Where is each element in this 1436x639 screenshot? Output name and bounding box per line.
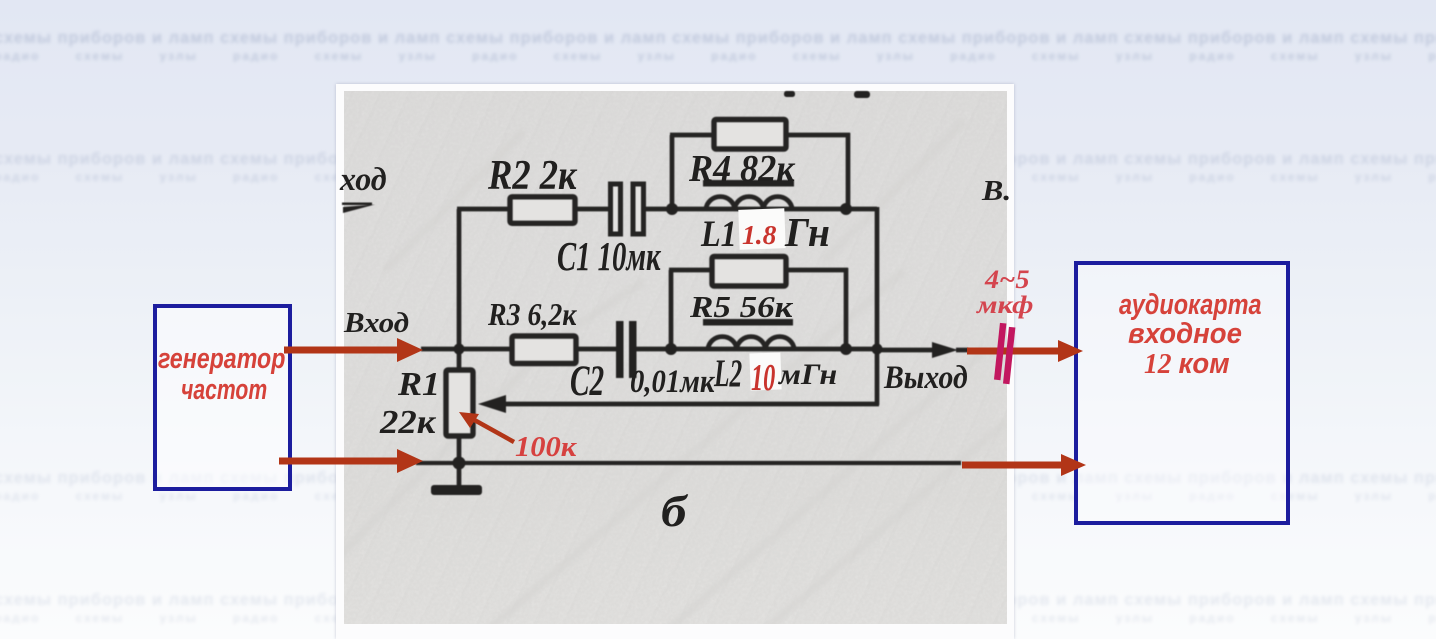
schematic paper	[344, 91, 1007, 624]
resistor R4	[714, 120, 786, 150]
label 1.8 annotation	[742, 222, 776, 249]
value underline R5	[703, 319, 793, 326]
annotation capacitor 4-5мкф plate 1	[994, 323, 1006, 380]
annotation arrow generator to bottom rail shaft	[279, 458, 399, 465]
background watermark band 4	[0, 593, 1436, 624]
label R5 56к	[690, 291, 792, 322]
wire C1 to node A	[641, 207, 674, 212]
potentiometer R1 body	[446, 370, 473, 436]
resistor R5	[712, 257, 786, 287]
wire Вход node to R3	[459, 347, 515, 352]
label генератор (line 1 of generator box)	[158, 345, 285, 374]
wire lower loop left	[669, 270, 674, 351]
scan input arrow under ход	[343, 205, 375, 214]
ground node junction dot	[453, 457, 466, 470]
label ход (cut at scan edge)	[340, 164, 387, 197]
node Вход junction dot	[454, 344, 465, 355]
arrowhead output to audio card	[1058, 340, 1083, 362]
annotation 100к pointer shaft	[469, 417, 514, 442]
label C2	[570, 360, 604, 403]
wire input stub left of Вход node	[421, 347, 461, 352]
label 4~5	[985, 267, 1030, 293]
label 0,01мк	[630, 366, 714, 399]
annotation arrow generator to Вход node shaft	[284, 347, 399, 354]
ground bar	[431, 485, 482, 495]
patch under 10 annotation	[749, 352, 781, 390]
wire lower loop top	[669, 268, 848, 273]
capacitor C2 plate 1	[616, 321, 624, 378]
wire feedback horizontal	[504, 402, 879, 407]
annotation capacitor 4-5мкф plate 2	[1003, 327, 1015, 384]
node E junction dot	[872, 344, 883, 355]
label 100к	[515, 434, 576, 462]
capacitor C1 plate 2	[633, 184, 644, 234]
feedback wiper arrowhead	[478, 395, 506, 413]
wire lower loop right	[844, 268, 849, 351]
inductor L1 humps	[706, 197, 792, 209]
capacitor C1 plate 1	[611, 184, 621, 234]
wire R2 to C1	[573, 207, 611, 212]
wire through L2 (node C to node D)	[671, 347, 848, 352]
label аудиокарта (line 1 of audio box)	[1119, 291, 1262, 320]
block audio card box	[1074, 261, 1290, 525]
label Вход	[344, 310, 409, 338]
resistor R2	[510, 197, 575, 224]
resistor R3	[512, 336, 576, 364]
wire R1 to ground node	[457, 436, 462, 465]
arrowhead bottom rail to audio card	[1061, 454, 1086, 476]
wire input vertical (Вход node up to R2 branch)	[457, 209, 462, 349]
capacitor C2 plate 2	[629, 321, 637, 378]
label В (cut at scan edge)	[982, 177, 1011, 206]
label R2 2к	[488, 155, 577, 197]
arrowhead 100к pointer	[459, 412, 479, 428]
scan edge cut mark 1	[784, 91, 795, 97]
background watermark band 1	[0, 31, 1436, 62]
label 22к	[380, 406, 435, 440]
wire feedback vertical	[875, 349, 880, 405]
value underline R4	[703, 180, 794, 187]
label Гн	[785, 212, 830, 253]
background watermark band 2	[0, 152, 1436, 183]
wire C2 to node C	[635, 347, 673, 352]
wire ground node down	[457, 463, 462, 485]
arrowhead generator to bottom rail	[397, 449, 423, 473]
block generator box	[153, 304, 292, 491]
wire bottom rail	[416, 461, 961, 465]
patch under 1.8 annotation	[738, 208, 785, 250]
wire node D to node E	[846, 347, 877, 352]
wire node B to right riser	[844, 207, 877, 212]
label R3 6,2к	[488, 298, 576, 330]
background watermark band 3	[0, 471, 1436, 502]
node B junction dot	[840, 203, 852, 215]
label R4 82к	[689, 150, 795, 188]
label R1	[398, 368, 440, 402]
label L1	[701, 216, 737, 253]
node D junction dot	[840, 343, 852, 355]
label частот (line 2 of generator box)	[181, 376, 267, 405]
node C junction dot	[665, 343, 677, 355]
wire output node E to arrow	[877, 348, 934, 353]
wire through L1 (node A to node B)	[672, 207, 846, 212]
wire right riser vertical	[875, 207, 880, 351]
node A junction dot	[666, 203, 678, 215]
label входное (line 2 of audio box)	[1128, 320, 1242, 349]
label L2	[714, 354, 742, 393]
scan edge cut mark 2	[854, 91, 870, 98]
wire upper loop top	[670, 133, 850, 138]
wire R3 to C2	[575, 347, 618, 352]
wire upper loop right	[846, 133, 851, 211]
arrowhead generator to Вход	[397, 338, 423, 362]
label C1 10мк	[557, 236, 661, 277]
label 12 ком (line 3 of audio box)	[1144, 350, 1230, 379]
label б	[661, 490, 686, 534]
label мГн	[779, 360, 837, 390]
wire Вход node down to R1	[457, 347, 462, 371]
inductor L2 humps	[708, 337, 794, 349]
label мкф	[977, 293, 1033, 318]
label Выход	[884, 362, 968, 395]
wire input node to R2	[457, 207, 512, 212]
label 10 annotation	[751, 359, 775, 397]
annotation arrow bottom rail to audio card shaft	[962, 462, 1064, 469]
annotation arrow output to audio card shaft	[967, 348, 1061, 355]
wire upper loop left	[670, 135, 675, 211]
output arrowhead	[932, 342, 958, 358]
wire output after arrowhead	[956, 348, 968, 353]
scanned schematic frame	[336, 84, 1014, 639]
